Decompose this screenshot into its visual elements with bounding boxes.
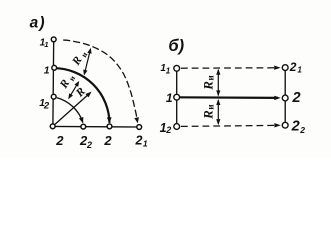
svg-text:1: 1 bbox=[44, 40, 48, 49]
figure b lower Ru vertical double arrow bbox=[217, 100, 219, 124]
figure b row 2 bold wire 1 to 2 bbox=[177, 96, 278, 99]
svg-text:2: 2 bbox=[292, 90, 301, 106]
svg-text:1: 1 bbox=[44, 65, 50, 77]
arrowhead into node 2 bbox=[107, 117, 112, 123]
figure b node 2_1 bbox=[282, 65, 288, 71]
figure b upper Ru vertical double arrow bbox=[217, 70, 219, 95]
svg-text:2: 2 bbox=[103, 133, 112, 148]
node 2_1 bbox=[137, 125, 142, 130]
node 2 on horizontal axis bbox=[107, 124, 112, 129]
figure b row 1 dashed wire 1_1 to 2_1 bbox=[181, 67, 277, 69]
figure a: vertical axis wire from origin 2 to node 1_1 bbox=[52, 39, 55, 126]
svg-text:2: 2 bbox=[299, 125, 305, 135]
figure b node 2 bbox=[282, 95, 288, 101]
svg-text:а): а) bbox=[30, 15, 46, 32]
inner solid arc radius R-Ru from node 1_2 to node 2_2 bbox=[57, 98, 83, 123]
figure b: right vertical wire joining 2_1 2 2_2 bbox=[284, 68, 286, 126]
arrowhead into node 2_2 bbox=[79, 117, 84, 123]
node 1_2 bbox=[51, 94, 56, 99]
svg-text:1: 1 bbox=[297, 66, 302, 75]
svg-text:R: R bbox=[200, 110, 215, 120]
svg-text:2: 2 bbox=[291, 119, 300, 135]
svg-text:б): б) bbox=[168, 37, 184, 55]
upper Ru double arrow between arc R and arc R+Ru bbox=[85, 52, 90, 71]
node 2_2 bbox=[81, 124, 86, 129]
svg-text:2: 2 bbox=[86, 140, 92, 150]
label Ru upper fig b bbox=[200, 75, 215, 90]
label Ru upper fig a bbox=[70, 48, 90, 69]
svg-text:1: 1 bbox=[143, 138, 148, 148]
figure b node 1_1 bbox=[174, 65, 180, 71]
svg-text:R: R bbox=[200, 81, 215, 91]
label Ru lower fig a bbox=[57, 71, 77, 92]
node 1_1 bbox=[51, 37, 56, 42]
svg-text:и: и bbox=[206, 75, 216, 80]
svg-text:1: 1 bbox=[166, 91, 173, 105]
svg-text:2: 2 bbox=[165, 125, 171, 135]
svg-text:2: 2 bbox=[135, 134, 143, 148]
lower Ru double arrow between arc R-Ru and arc R bbox=[71, 85, 77, 95]
svg-text:и: и bbox=[206, 104, 216, 109]
figure b node 1 bbox=[174, 94, 180, 100]
node 2 origin bbox=[50, 124, 55, 129]
figure a: horizontal axis wire from origin 2 to node 2_1 bbox=[53, 125, 140, 128]
svg-text:1: 1 bbox=[166, 67, 171, 76]
outer dashed arc radius R+Ru from node 1_1 to node 2_1 bbox=[60, 40, 137, 121]
middle bold arc radius R from node 1 to node 2 bbox=[54, 68, 109, 123]
label Ru lower fig b bbox=[200, 104, 215, 119]
figure b node 2_2 bbox=[282, 122, 288, 128]
figure b node 1_2 bbox=[174, 124, 180, 130]
R radius arrow from origin bbox=[54, 94, 90, 126]
label R fig a bbox=[73, 85, 88, 100]
svg-text:2: 2 bbox=[43, 100, 50, 111]
figure b: left vertical wire joining 1_1 1 1_2 bbox=[176, 68, 178, 126]
node 1 bbox=[52, 65, 57, 70]
arrowhead into node 2_1 bbox=[134, 117, 139, 123]
svg-text:2: 2 bbox=[55, 133, 64, 148]
svg-text:и: и bbox=[67, 74, 77, 83]
figure b row 3 dashed wire 1_2 to 2_2 bbox=[181, 125, 277, 126]
svg-text:2: 2 bbox=[289, 60, 297, 74]
